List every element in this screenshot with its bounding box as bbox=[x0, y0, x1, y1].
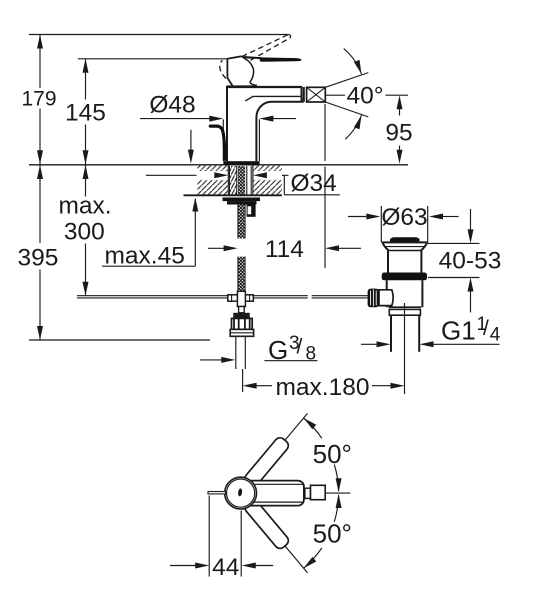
svg-text:max.45: max.45 bbox=[105, 243, 185, 270]
svg-text:179: 179 bbox=[21, 88, 56, 111]
svg-text:95: 95 bbox=[385, 120, 412, 147]
svg-text:300: 300 bbox=[64, 219, 105, 246]
svg-text:145: 145 bbox=[65, 100, 106, 127]
svg-text:max.180: max.180 bbox=[276, 374, 370, 401]
svg-text:/: / bbox=[483, 317, 489, 340]
svg-text:40°: 40° bbox=[346, 83, 383, 110]
svg-text:50°: 50° bbox=[313, 519, 352, 549]
svg-text:Ø48: Ø48 bbox=[149, 92, 195, 119]
svg-text:max.: max. bbox=[58, 193, 111, 220]
svg-text:Ø34: Ø34 bbox=[291, 170, 337, 197]
svg-text:44: 44 bbox=[212, 554, 239, 581]
svg-text:40-53: 40-53 bbox=[439, 248, 502, 275]
svg-text:395: 395 bbox=[18, 245, 59, 272]
svg-text:8: 8 bbox=[306, 344, 317, 365]
svg-text:4: 4 bbox=[490, 325, 501, 346]
svg-text:G: G bbox=[268, 335, 288, 365]
svg-text:G1: G1 bbox=[441, 316, 476, 346]
svg-text:Ø63: Ø63 bbox=[381, 204, 427, 231]
svg-text:114: 114 bbox=[265, 236, 304, 263]
svg-text:50°: 50° bbox=[313, 439, 352, 469]
svg-text:/: / bbox=[297, 336, 303, 359]
